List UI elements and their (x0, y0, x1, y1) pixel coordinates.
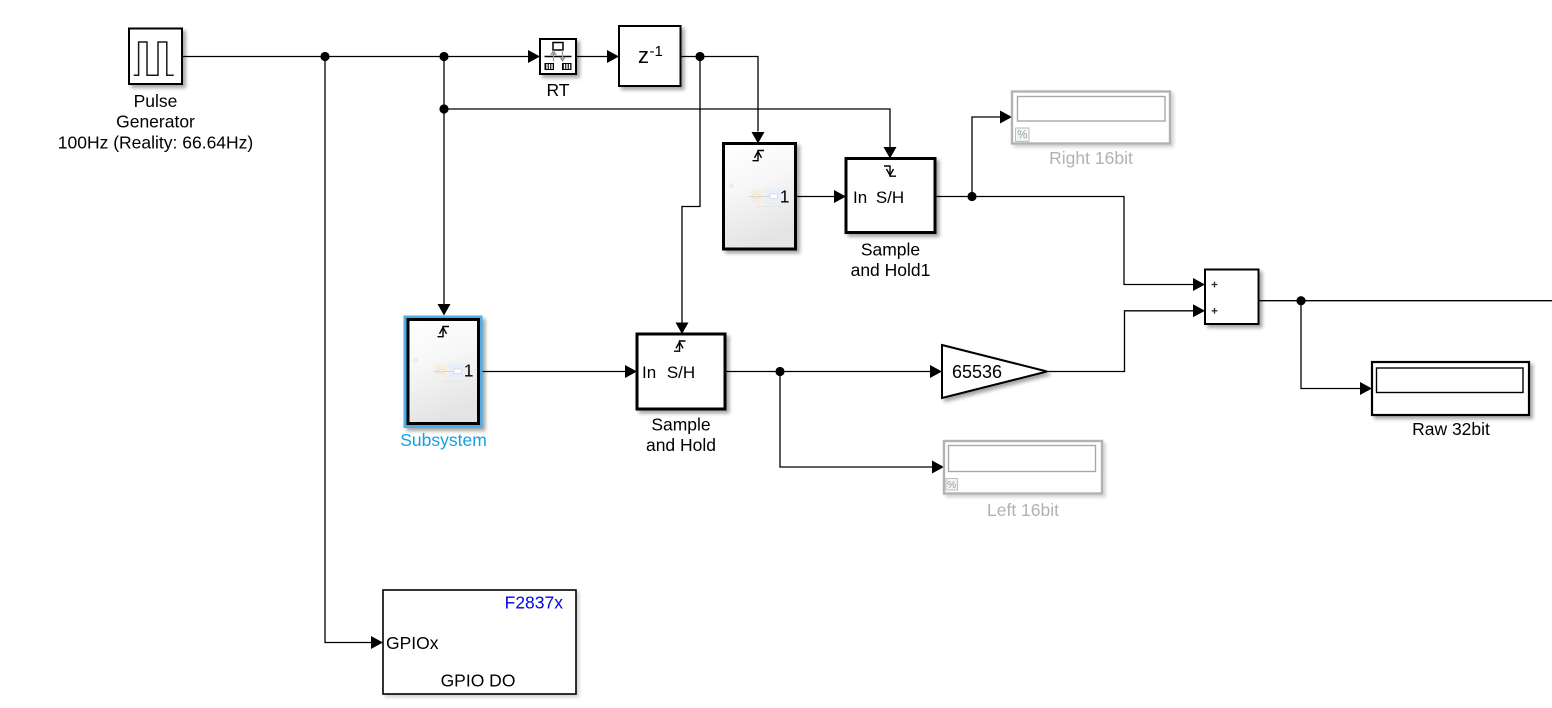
block Sample and Hold1 (846, 159, 935, 233)
wire: down to GPIOx input (325, 57, 371, 643)
trigger icon rising edge (753, 151, 765, 161)
wire: Unit Delay branch to Sample and Hold trigger (682, 57, 700, 323)
arrowhead into Add input 1 (1193, 278, 1205, 291)
label Sample and Hold (646, 415, 716, 456)
svg-text:z: z (638, 43, 649, 68)
wire: RT to Unit Delay (576, 56, 608, 58)
junction node at x=444 (439, 52, 448, 61)
thumbnail contents (730, 184, 733, 187)
svg-text:1: 1 (780, 187, 790, 207)
wire: down to Subsystem trigger (443, 57, 445, 305)
arrowhead into Left 16bit (932, 461, 944, 474)
arrowhead into Add input 2 (1193, 304, 1205, 317)
svg-text:S/H: S/H (876, 188, 904, 207)
svg-text:Generator: Generator (116, 112, 195, 132)
svg-text:%: % (947, 479, 956, 491)
svg-text:RT: RT (546, 80, 569, 100)
block Unit Delay z^-1 (619, 26, 681, 86)
junction node at x=325 (320, 52, 329, 61)
trigger icon rising edge (438, 327, 450, 337)
wire: Sample and Hold output to Gain (725, 371, 931, 373)
thumbnail contents (414, 359, 417, 362)
svg-text:GPIOx: GPIOx (386, 633, 439, 653)
svg-text:and Hold: and Hold (646, 435, 716, 455)
wire: branch up to Right 16bit display (972, 117, 1001, 197)
block Gain 65536 (942, 345, 1047, 398)
arrowhead into Raw 32bit (1360, 382, 1372, 395)
trigger icon falling edge (884, 166, 896, 176)
block RT rate transition (540, 39, 576, 74)
label Sample and Hold1 (851, 240, 931, 281)
svg-text:Sample: Sample (651, 415, 710, 435)
arrowhead into Sample and Hold trigger (676, 323, 689, 335)
wire: Gain output to Add input 2 (1047, 311, 1194, 372)
svg-text:Raw 32bit: Raw 32bit (1412, 419, 1490, 439)
block unnamed triggered subsystem (724, 144, 796, 250)
junction node at (1301,300.7) (1296, 296, 1305, 305)
svg-text:Left 16bit: Left 16bit (987, 500, 1059, 520)
svg-text:Right 16bit: Right 16bit (1049, 148, 1133, 168)
wire: Add output to right edge (1259, 300, 1552, 302)
block Right 16bit display (grayed) (1012, 92, 1170, 144)
svg-text:-1: -1 (650, 43, 663, 60)
svg-text:and Hold1: and Hold1 (851, 260, 931, 280)
block Pulse Generator (129, 29, 182, 85)
wire: to Sample and Hold1 trigger (444, 109, 890, 147)
wire arrowhead into RT (528, 50, 540, 63)
svg-text:In: In (853, 188, 867, 207)
junction node at (780,371.5) (775, 367, 784, 376)
trigger icon rising edge (674, 341, 686, 351)
svg-text:GPIO DO: GPIO DO (441, 671, 516, 691)
wire: Unit Delay output to unnamed subsystem trigger (681, 57, 759, 132)
arrowhead into Right 16bit (1000, 111, 1012, 124)
arrowhead into Gain (930, 365, 942, 378)
svg-text:100Hz (Reality: 66.64Hz): 100Hz (Reality: 66.64Hz) (58, 133, 254, 153)
label Pulse Generator (58, 91, 254, 153)
junction node at (700,56.5) (695, 52, 704, 61)
junction node at (444,109) (439, 104, 448, 113)
svg-text:F2837x: F2837x (505, 593, 564, 613)
svg-text:S/H: S/H (667, 363, 695, 382)
svg-text:Subsystem: Subsystem (400, 430, 487, 450)
svg-text:%: % (1017, 130, 1027, 142)
arrowhead into Unit Delay (607, 50, 619, 63)
svg-text:Sample: Sample (861, 240, 920, 260)
wire: unnamed subsystem out to Sample and Hold1 In (796, 196, 835, 198)
arrowhead into Sample and Hold1 trigger (884, 147, 897, 159)
svg-text:1: 1 (464, 361, 474, 381)
block Add sum (1205, 270, 1259, 325)
arrowhead into GPIOx (371, 636, 383, 649)
wire: branch down to Raw 32bit display (1301, 301, 1361, 389)
svg-text:65536: 65536 (952, 362, 1002, 382)
block Raw 32bit display (1372, 362, 1529, 415)
wire: branch down to Left 16bit display (780, 372, 933, 468)
wire: Subsystem output to Sample and Hold In (479, 371, 626, 373)
wire: Sample and Hold1 output to Add input 1 (935, 197, 1194, 285)
junction node at (972,196.5) (967, 192, 976, 201)
block GPIO DO (F2837x) (383, 590, 576, 694)
block Left 16bit display (grayed) (944, 441, 1102, 494)
arrowhead into unnamed subsystem trigger (752, 132, 765, 144)
arrowhead into Sample and Hold In (625, 365, 637, 378)
arrowhead into Sample and Hold1 In (834, 190, 846, 203)
svg-text:Pulse: Pulse (134, 91, 178, 111)
block Sample and Hold (637, 334, 725, 409)
arrowhead into Subsystem trigger (438, 304, 451, 316)
svg-text:In: In (642, 363, 656, 382)
block Subsystem (selected) (404, 316, 483, 429)
wire: Pulse Generator output main horizontal (182, 56, 529, 58)
